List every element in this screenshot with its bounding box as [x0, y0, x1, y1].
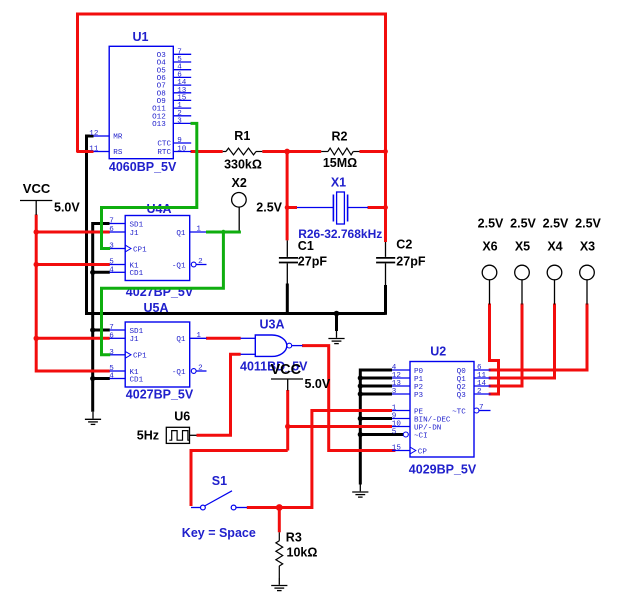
junction dot S1/R3/PE node: [276, 504, 283, 511]
U4A pin 7 stub: [110, 223, 126, 225]
U2 pin 11 (Q1) stub: [474, 377, 491, 379]
svg-text:~CI: ~CI: [414, 432, 428, 440]
ground (U2 input bus): [359, 485, 361, 492]
wire: X1 left stub: [287, 206, 297, 209]
U1 pin 4 (O5) stub: [173, 69, 191, 71]
power VCC symbol (middle): [271, 378, 303, 380]
svg-text:U5A: U5A: [143, 301, 168, 315]
U3A output bubble: [287, 343, 292, 348]
svg-text:Q3: Q3: [457, 392, 467, 400]
junction dot X1 right node: [383, 205, 388, 210]
svg-text:13: 13: [392, 380, 402, 388]
wire: U5A Q1 to U3A input A: [206, 337, 241, 340]
U5A CP1 clock triangle: [125, 351, 131, 358]
wire: U2 P1 branch: [360, 377, 392, 380]
svg-text:4060BP_5V: 4060BP_5V: [109, 160, 177, 174]
svg-text:330kΩ: 330kΩ: [224, 158, 262, 172]
svg-text:P2: P2: [414, 384, 424, 392]
U5A pin 4 stub: [110, 378, 126, 380]
wire: top feedback loop RS - frame: [78, 14, 386, 242]
svg-text:27pF: 27pF: [396, 255, 426, 269]
U2 pin 7 (~TC) stub with bubble: [474, 408, 479, 413]
svg-text:UP/-DN: UP/-DN: [414, 424, 441, 432]
svg-text:CP1: CP1: [133, 246, 147, 254]
svg-text:9: 9: [177, 137, 182, 145]
wire: R1 to R2 segment: [262, 150, 321, 153]
crystal X1 32.768kHz: [297, 207, 333, 209]
U2 pin 14 (Q2) stub: [474, 385, 491, 387]
svg-text:5.0V: 5.0V: [305, 377, 331, 391]
wire: U2 BIN/-DEC branch: [360, 417, 392, 420]
wire: PE vertical: [312, 411, 392, 510]
junction dot rail-ground: [334, 311, 340, 317]
capacitor C1 27pF: [286, 240, 288, 257]
switch S1 (Key = Space): [191, 507, 201, 509]
wire: green drop from Q1 node to U5A CP1: [102, 232, 224, 355]
svg-text:12: 12: [89, 130, 99, 138]
svg-text:VCC: VCC: [271, 362, 302, 378]
svg-text:X6: X6: [482, 239, 497, 253]
U2 pin 2 (Q3) stub: [474, 393, 491, 395]
svg-text:CP: CP: [418, 448, 428, 456]
wire: VCC 5.0V vertical rail: [36, 215, 110, 372]
svg-text:RS: RS: [113, 149, 123, 157]
resistor R1 330k: [223, 151, 226, 153]
wire: S1 right to PE vertical: [247, 506, 312, 509]
svg-text:R26-32.768kHz: R26-32.768kHz: [298, 227, 382, 241]
wire: RS pin11 stub wire: [77, 150, 94, 153]
svg-text:Q2: Q2: [457, 384, 467, 392]
svg-text:1: 1: [196, 226, 201, 234]
U4A pin 2 (~Q1) stub with bubble: [191, 262, 196, 267]
U2 pin 10 (UP/-DN) stub: [392, 426, 410, 428]
svg-text:14: 14: [477, 380, 487, 388]
junction dot green Q1/X2 node: [221, 230, 225, 234]
U1 pin 14 (O7) stub: [173, 84, 191, 86]
svg-text:X5: X5: [515, 239, 530, 253]
U5A pin 6 stub: [110, 337, 126, 339]
svg-text:2: 2: [198, 258, 203, 266]
U2 pin 6 (Q0) stub: [474, 369, 491, 371]
svg-text:K1: K1: [130, 262, 140, 270]
svg-text:SD1: SD1: [130, 328, 144, 336]
wire: X1 right stub: [368, 206, 388, 209]
svg-text:U1: U1: [133, 30, 149, 44]
wire: U2 P3 branch: [360, 393, 392, 396]
capacitor C2 27pF: [385, 242, 387, 257]
svg-text:2: 2: [477, 388, 482, 396]
wire: U2 P2 branch: [360, 385, 392, 388]
wire: X4 to Q1: [489, 304, 555, 379]
U1 pin 9 (CTC) stub: [173, 142, 191, 144]
svg-text:X2: X2: [232, 176, 247, 190]
S1 lever: [205, 491, 232, 506]
U1 pin 7 (O3) stub: [173, 53, 191, 55]
svg-text:1: 1: [392, 405, 397, 413]
wire: VCC2 down to S1 rail: [286, 390, 289, 451]
U3A input stubs: [241, 337, 256, 339]
U2 pin 4 (P0) stub: [392, 369, 410, 371]
clock source U6 5Hz: [166, 427, 189, 443]
wire: U3A output to U2 CP: [302, 346, 395, 451]
svg-text:BIN/-DEC: BIN/-DEC: [414, 416, 451, 424]
U5A pin 5 stub: [110, 370, 126, 372]
U2 pin 15 (CP) stub with clock triangle: [392, 450, 410, 452]
svg-text:R1: R1: [234, 129, 250, 143]
svg-text:R3: R3: [286, 530, 302, 544]
junction dot VCC2-UP/-DN: [285, 424, 290, 429]
svg-text:Q1: Q1: [176, 230, 186, 238]
svg-text:2.5V: 2.5V: [543, 217, 569, 231]
wire: U5A CD1 branch: [93, 377, 110, 380]
wire: U2 input bus vertical x=360.3: [360, 370, 392, 485]
svg-text:10: 10: [177, 146, 187, 154]
U1 pin 2 (O12) stub: [173, 115, 191, 117]
svg-text:1: 1: [196, 332, 201, 340]
U2 pin 1 (PE) stub: [392, 410, 410, 412]
terminal X2 probe: [232, 193, 247, 208]
U2 pin 12 (P1) stub: [392, 377, 410, 379]
svg-text:X3: X3: [580, 239, 595, 253]
wire: U2 ~CI branch: [360, 433, 403, 436]
svg-text:X1: X1: [331, 176, 346, 190]
wire: RTC pin10 to R1: [191, 150, 223, 153]
U4A pin 1 (Q1) stub: [190, 231, 207, 233]
U4A pin 5 stub: [110, 264, 126, 266]
junction dot R1/R2/C1 node: [284, 149, 290, 155]
svg-text:2.5V: 2.5V: [478, 217, 504, 231]
svg-text:RTC: RTC: [157, 149, 171, 157]
svg-text:SD1: SD1: [130, 221, 144, 229]
svg-text:J1: J1: [130, 230, 140, 238]
svg-text:Q1: Q1: [457, 376, 467, 384]
wire: X5 to Q2: [489, 304, 522, 387]
terminal X5: [515, 265, 530, 280]
svg-text:10kΩ: 10kΩ: [287, 546, 318, 560]
wire: X3 to Q0: [489, 304, 587, 371]
wire: ground-net vertical x=92.7 (U4A/U5A SD1-CD1 to ground): [93, 224, 110, 412]
svg-text:MR: MR: [113, 134, 123, 142]
junction dot U2 BIN: [358, 416, 363, 421]
svg-text:4: 4: [392, 364, 397, 372]
U4A pin 3 stub: [110, 248, 126, 250]
junction dot R2 right node: [383, 149, 388, 154]
svg-text:U3A: U3A: [260, 318, 285, 332]
terminal X6: [482, 265, 497, 280]
U1 pin 12 (MR) stub: [94, 135, 110, 137]
svg-text:27pF: 27pF: [298, 254, 328, 268]
U4A pin 4 stub: [110, 271, 126, 273]
U1 pin 13 (O8) stub: [173, 92, 191, 94]
junction dot U4A CD1 black: [90, 270, 95, 275]
U1 pin 1 (O11) stub: [173, 107, 191, 109]
wire: VCC2 branch to U2 UP/-DN: [288, 425, 392, 428]
terminal X4: [547, 265, 562, 280]
svg-text:2.5V: 2.5V: [510, 217, 536, 231]
wire: U4A CD1 branch: [93, 271, 110, 274]
svg-text:11: 11: [477, 372, 487, 380]
wire: ground stub below rail at x=336.5: [335, 314, 338, 332]
NAND gate U3A body: [255, 335, 286, 356]
svg-text:5: 5: [109, 259, 114, 267]
svg-text:3: 3: [392, 388, 397, 396]
svg-text:2: 2: [198, 365, 203, 373]
svg-text:P3: P3: [414, 392, 424, 400]
U2 pin 13 (P2) stub: [392, 385, 410, 387]
IC U4A 4027BP_5V body: [125, 216, 190, 281]
wire: VCC to U4A J1: [36, 231, 110, 234]
svg-text:J1: J1: [130, 336, 140, 344]
svg-text:VCC: VCC: [23, 181, 51, 196]
svg-text:3: 3: [177, 117, 182, 125]
U2 pin 3 (P3) stub: [392, 393, 410, 395]
U1 pin 6 (O6) stub: [173, 76, 191, 78]
IC U1 4060BP_5V body: [109, 46, 173, 158]
junction dot U5A SD1 black: [90, 327, 95, 332]
wire: ground rail horizontal y=313.5: [85, 312, 386, 315]
wire: U1 MR pin12 to ground-net vertical: [87, 136, 94, 314]
U2 pin 5 (~CI) stub with bubble: [403, 432, 408, 437]
U1 pin 11 (RS) stub: [94, 151, 110, 153]
svg-text:R2: R2: [332, 129, 348, 143]
svg-text:Q0: Q0: [457, 368, 467, 376]
junction dot U2 P2: [358, 383, 363, 388]
wire: C1 bottom to ground rail: [286, 284, 289, 315]
svg-text:~TC: ~TC: [452, 408, 466, 416]
svg-text:P1: P1: [414, 376, 424, 384]
ground (below R3): [278, 578, 280, 585]
wire: U5A SD1 branch: [93, 329, 110, 332]
svg-text:C2: C2: [396, 237, 412, 251]
svg-text:6: 6: [109, 333, 114, 341]
wire: U1 O13 to U4A CP1 (green): [102, 123, 197, 248]
svg-text:7: 7: [479, 404, 484, 412]
U5A pin 2 (~Q1) stub with bubble: [191, 369, 196, 374]
svg-text:U6: U6: [174, 409, 190, 423]
svg-text:4: 4: [109, 373, 114, 381]
svg-text:5.0V: 5.0V: [54, 200, 80, 214]
svg-text:4027BP_5V: 4027BP_5V: [126, 388, 194, 402]
svg-text:X4: X4: [547, 239, 562, 253]
svg-text:5: 5: [392, 429, 397, 437]
svg-text:6: 6: [109, 226, 114, 234]
junction dot U5A CD1 black: [90, 376, 95, 381]
svg-text:O13: O13: [152, 121, 166, 129]
ground (middle rail): [336, 331, 338, 338]
svg-text:4: 4: [109, 267, 114, 275]
IC U2 4029BP_5V body: [410, 362, 474, 458]
svg-text:5Hz: 5Hz: [137, 429, 159, 443]
wire: S1 left vertical from VCC rail: [191, 451, 288, 507]
svg-text:CD1: CD1: [130, 270, 144, 278]
resistor R3 10k (vertical): [278, 532, 280, 541]
svg-text:CTC: CTC: [157, 141, 171, 149]
wire: R2 right to frame vertical: [360, 150, 388, 153]
svg-text:Q1: Q1: [176, 336, 186, 344]
U5A pin 7 stub: [110, 329, 126, 331]
svg-text:PE: PE: [414, 408, 424, 416]
U1 pin 5 (O4) stub: [173, 61, 191, 63]
svg-text:Key = Space: Key = Space: [182, 526, 256, 540]
junction dot VCC-K1 U4A: [34, 262, 39, 267]
U1 pin 10 (RTC) stub: [173, 151, 191, 153]
svg-text:15: 15: [392, 445, 402, 453]
wire: U6 output to U3A input B: [197, 354, 241, 435]
U2 pin 9 (BIN/-DEC) stub: [392, 418, 410, 420]
junction dot U2 ~CI: [358, 432, 363, 437]
svg-text:7: 7: [109, 218, 114, 226]
U4A CP1 clock triangle: [125, 245, 131, 252]
svg-text:2.5V: 2.5V: [575, 217, 601, 231]
terminal X3: [580, 265, 595, 280]
svg-text:-Q1: -Q1: [172, 262, 186, 270]
IC U5A 4027BP_5V body: [125, 322, 190, 387]
U1 pin 15 (O9) stub: [173, 99, 191, 101]
svg-text:-Q1: -Q1: [172, 369, 186, 377]
junction dot U2 P1: [358, 375, 363, 380]
svg-text:P0: P0: [414, 368, 424, 376]
svg-text:15MΩ: 15MΩ: [323, 156, 357, 170]
wire: VCC to U4A K1: [36, 263, 110, 266]
svg-text:10: 10: [392, 421, 402, 429]
power VCC symbol (top left): [20, 200, 52, 202]
U5A pin 3 stub: [110, 354, 126, 356]
U3A output stub: [292, 345, 303, 347]
wire: C2 bottom to ground rail: [384, 285, 387, 315]
ground (left, below VCC net): [92, 412, 94, 419]
wire: junction to R3: [278, 508, 281, 533]
svg-text:11: 11: [89, 146, 99, 154]
wire: X6 to Q3: [489, 304, 499, 395]
svg-text:2.5V: 2.5V: [256, 201, 282, 215]
U4A pin 6 stub: [110, 231, 126, 233]
svg-text:CD1: CD1: [130, 376, 144, 384]
junction dot VCC-J1 U4A: [34, 229, 39, 234]
wire: branch down to 2.5V node and C1: [286, 150, 289, 240]
svg-text:4029BP_5V: 4029BP_5V: [409, 463, 477, 477]
svg-text:12: 12: [392, 372, 402, 380]
U1 pin 3 (O13) stub: [173, 122, 191, 124]
resistor R2 15M: [321, 151, 328, 153]
wire: U4A Q1 to X2 node (green): [206, 231, 241, 234]
wire: VCC to U5A J1: [36, 337, 110, 340]
svg-text:S1: S1: [212, 474, 227, 488]
junction dot VCC-J1 U5A: [34, 336, 39, 341]
junction dot U2 P3: [358, 391, 363, 396]
svg-text:CP1: CP1: [133, 353, 147, 361]
junction dot 2.5V X1 left node: [285, 205, 290, 210]
U5A pin 1 (Q1) stub: [190, 337, 207, 339]
svg-text:9: 9: [392, 413, 397, 421]
svg-text:7: 7: [109, 324, 114, 332]
svg-text:U2: U2: [430, 344, 446, 358]
svg-text:6: 6: [477, 364, 482, 372]
